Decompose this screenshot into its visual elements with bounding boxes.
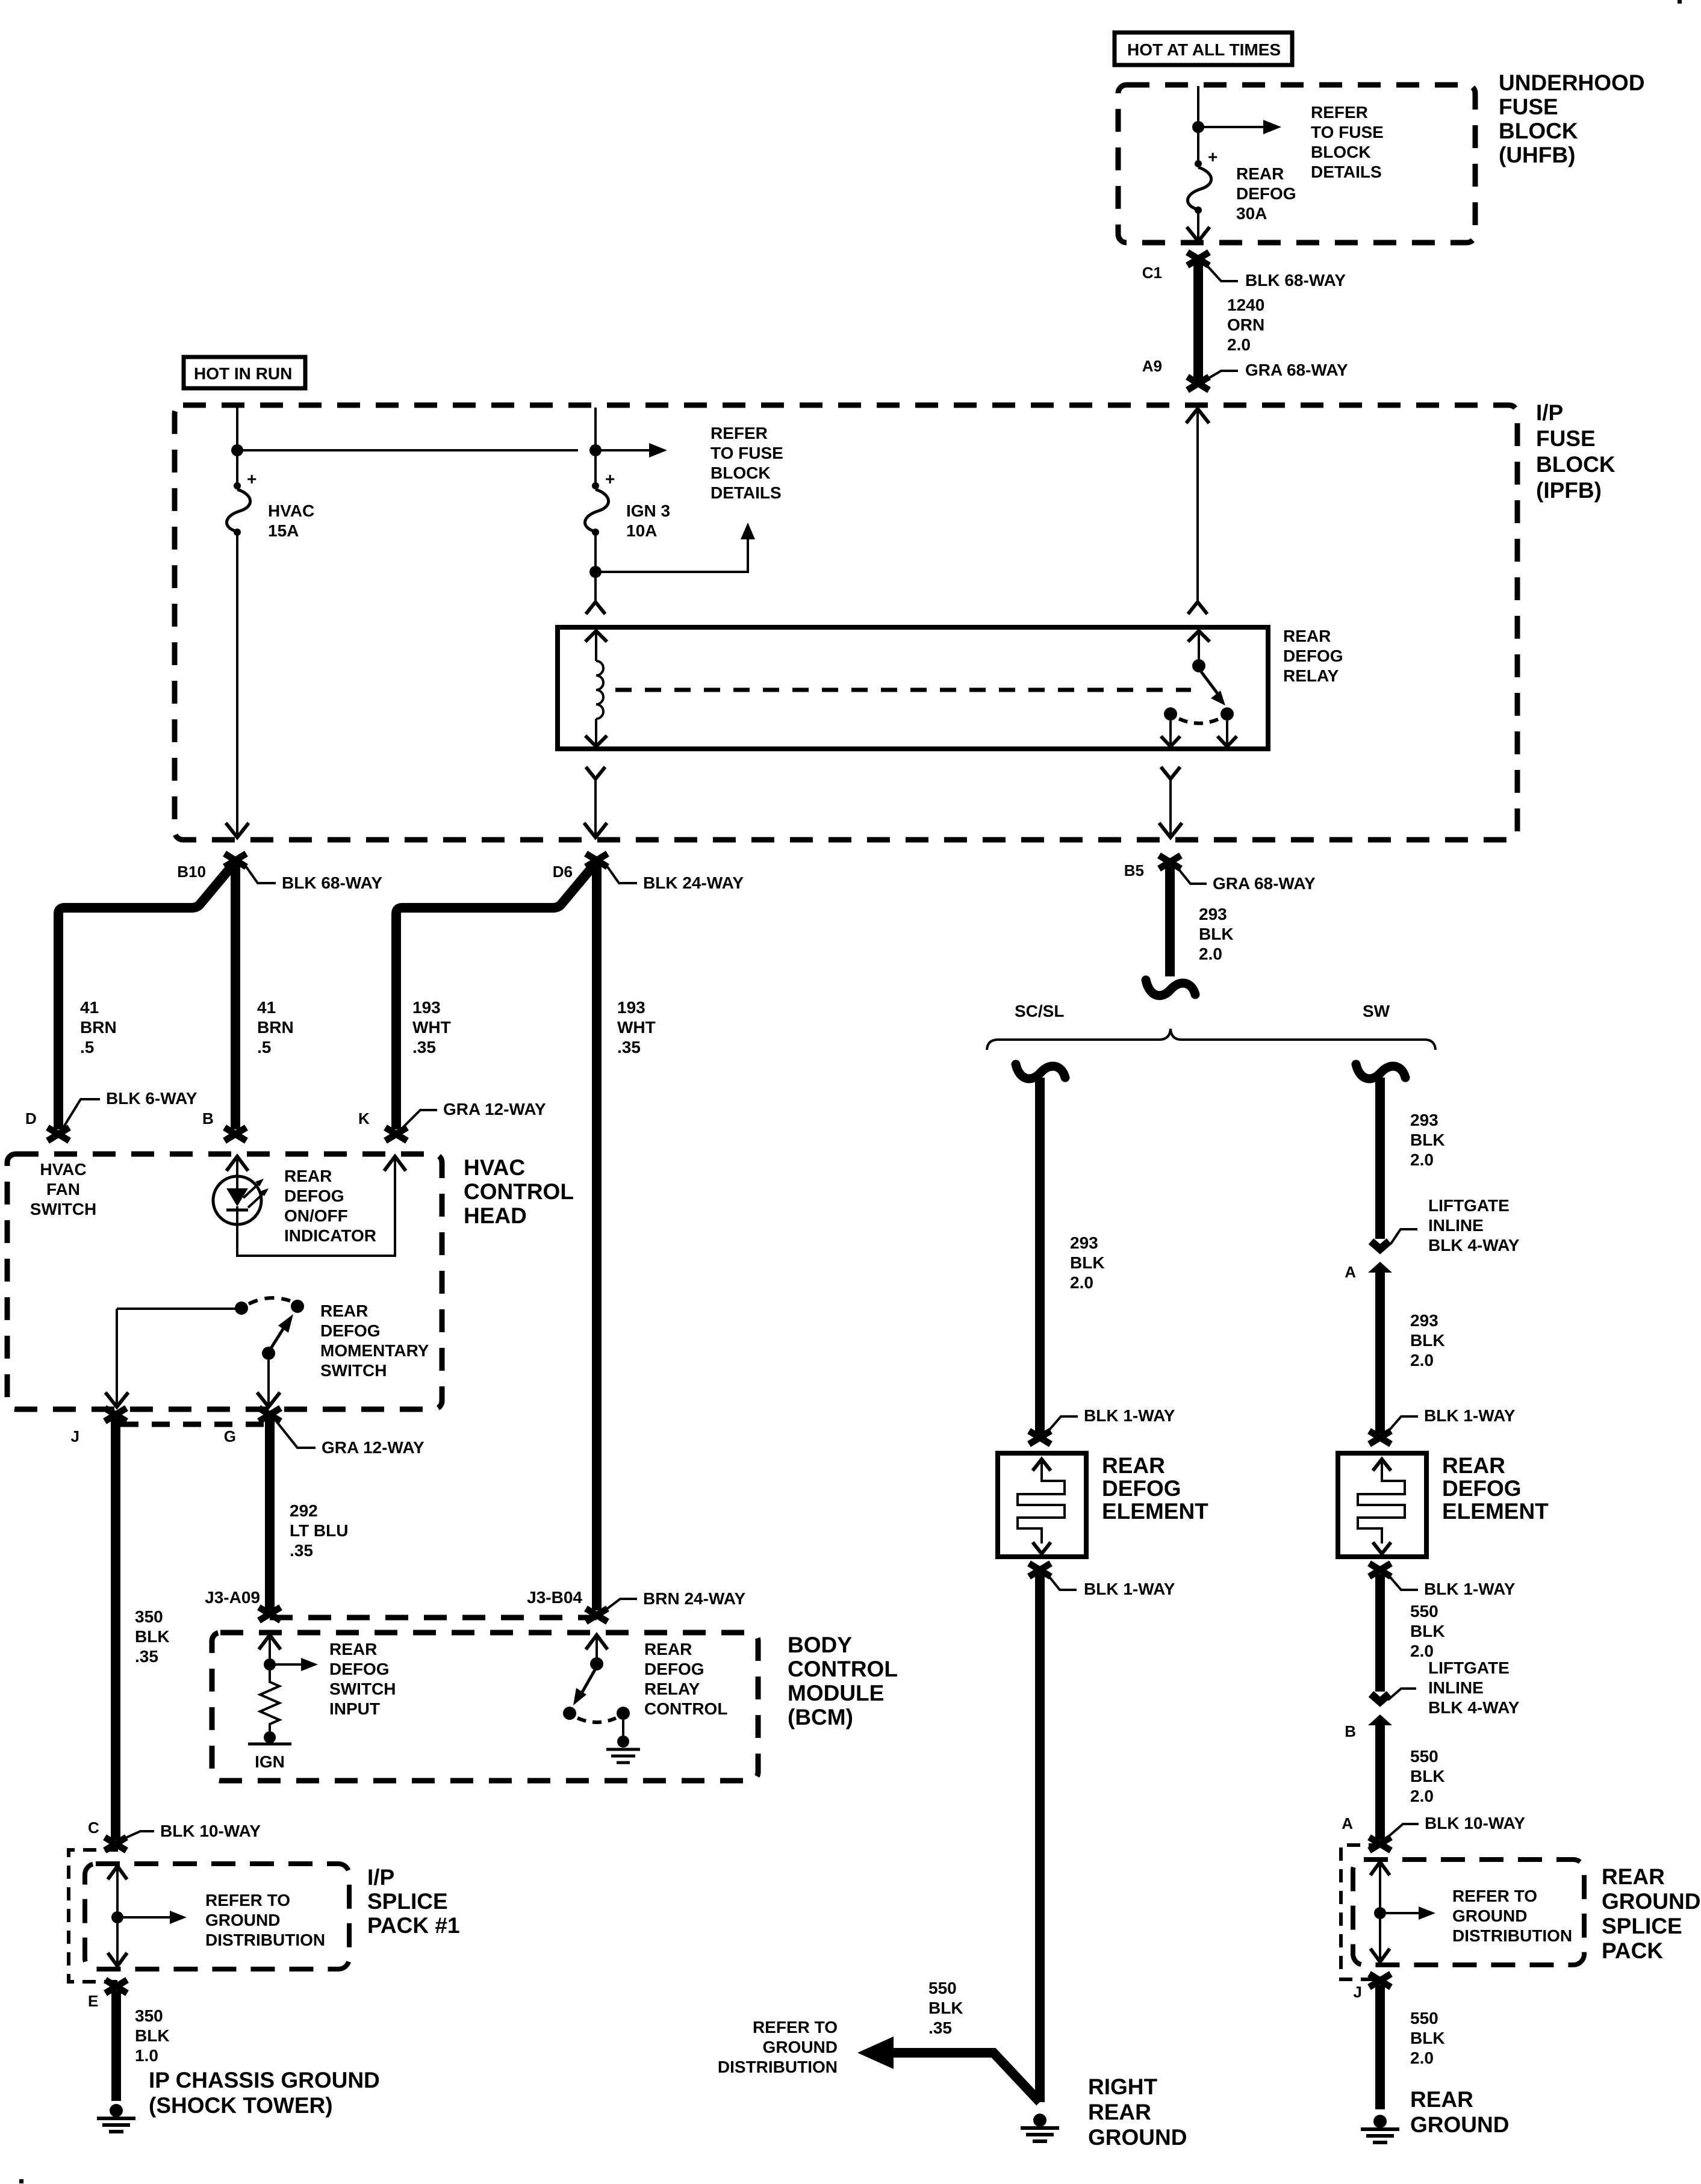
svg-text:HEAD: HEAD xyxy=(464,1203,527,1228)
svg-text:INPUT: INPUT xyxy=(329,1699,380,1718)
svg-text:B5: B5 xyxy=(1124,861,1144,879)
svg-text:ON/OFF: ON/OFF xyxy=(284,1206,348,1225)
svg-text:B: B xyxy=(1345,1722,1356,1740)
svg-text:BLK: BLK xyxy=(1410,1622,1445,1640)
svg-text:LIFTGATE: LIFTGATE xyxy=(1428,1196,1510,1215)
svg-text:RELAY: RELAY xyxy=(644,1680,700,1698)
svg-text:J: J xyxy=(71,1427,79,1445)
svg-text:BLK: BLK xyxy=(1410,1331,1445,1350)
svg-text:CONTROL: CONTROL xyxy=(644,1699,727,1718)
svg-text:BLK: BLK xyxy=(135,2026,170,2045)
svg-text:HOT IN RUN: HOT IN RUN xyxy=(194,364,292,383)
svg-text:BLK 1-WAY: BLK 1-WAY xyxy=(1424,1580,1516,1598)
svg-text:2.0: 2.0 xyxy=(1410,1787,1434,1805)
svg-text:GRA 12-WAY: GRA 12-WAY xyxy=(322,1438,424,1457)
svg-text:IP CHASSIS GROUND: IP CHASSIS GROUND xyxy=(149,2068,380,2092)
svg-text:C1: C1 xyxy=(1142,264,1162,282)
svg-text:INDICATOR: INDICATOR xyxy=(284,1226,376,1245)
svg-text:BLK 1-WAY: BLK 1-WAY xyxy=(1084,1580,1175,1598)
svg-text:BLK 10-WAY: BLK 10-WAY xyxy=(1425,1814,1525,1832)
svg-text:GROUND: GROUND xyxy=(1410,2112,1509,2137)
svg-text:J3-A09: J3-A09 xyxy=(205,1588,260,1607)
svg-text:BLK 24-WAY: BLK 24-WAY xyxy=(643,873,744,892)
svg-text:TO FUSE: TO FUSE xyxy=(711,444,783,462)
svg-text:BLK 68-WAY: BLK 68-WAY xyxy=(282,873,382,892)
svg-text:DEFOG: DEFOG xyxy=(1442,1476,1522,1501)
svg-text:550: 550 xyxy=(1410,1602,1438,1621)
svg-text:193: 193 xyxy=(412,998,441,1017)
svg-text:15A: 15A xyxy=(268,521,299,540)
svg-text:MOMENTARY: MOMENTARY xyxy=(320,1341,429,1360)
svg-text:TO FUSE: TO FUSE xyxy=(1311,123,1384,141)
svg-text:RELAY: RELAY xyxy=(1283,666,1339,685)
svg-text:(IPFB): (IPFB) xyxy=(1536,478,1602,503)
svg-text:GROUND: GROUND xyxy=(1602,1889,1700,1914)
svg-text:HVAC: HVAC xyxy=(40,1160,86,1179)
svg-text:350: 350 xyxy=(135,1607,163,1626)
svg-text:BLK: BLK xyxy=(928,1999,963,2017)
svg-text:REFER TO: REFER TO xyxy=(1452,1887,1537,1905)
svg-text:1240: 1240 xyxy=(1227,296,1264,314)
svg-text:BLOCK: BLOCK xyxy=(711,464,771,482)
svg-text:BRN: BRN xyxy=(257,1018,294,1037)
svg-text:WHT: WHT xyxy=(412,1018,451,1037)
svg-text:CONTROL: CONTROL xyxy=(788,1657,898,1681)
svg-text:A: A xyxy=(1342,1814,1353,1832)
svg-text:SWITCH: SWITCH xyxy=(30,1200,96,1218)
svg-text:.5: .5 xyxy=(80,1038,94,1056)
svg-text:BLK 4-WAY: BLK 4-WAY xyxy=(1428,1236,1520,1255)
svg-text:SPLICE: SPLICE xyxy=(367,1889,448,1914)
svg-text:REAR: REAR xyxy=(1442,1453,1505,1478)
svg-text:REFER: REFER xyxy=(711,424,768,442)
svg-text:BLK 1-WAY: BLK 1-WAY xyxy=(1084,1406,1175,1425)
svg-text:SW: SW xyxy=(1363,1002,1390,1020)
svg-text:INLINE: INLINE xyxy=(1428,1678,1484,1697)
svg-text:HVAC: HVAC xyxy=(268,501,314,520)
svg-text:GROUND: GROUND xyxy=(1088,2125,1187,2150)
svg-text:GROUND: GROUND xyxy=(1452,1906,1527,1925)
svg-text:BLOCK: BLOCK xyxy=(1536,452,1615,477)
svg-text:MODULE: MODULE xyxy=(788,1681,884,1705)
svg-text:2.0: 2.0 xyxy=(1410,1642,1434,1660)
svg-text:E: E xyxy=(88,1992,98,2010)
svg-text:ORN: ORN xyxy=(1227,315,1264,334)
svg-text:SC/SL: SC/SL xyxy=(1015,1002,1064,1020)
svg-text:FUSE: FUSE xyxy=(1499,95,1558,119)
svg-text:+: + xyxy=(605,470,615,488)
svg-text:41: 41 xyxy=(257,998,276,1017)
svg-text:(BCM): (BCM) xyxy=(788,1705,853,1730)
svg-text:BLK 1-WAY: BLK 1-WAY xyxy=(1424,1406,1516,1425)
svg-text:2.0: 2.0 xyxy=(1410,1150,1434,1169)
svg-text:REAR: REAR xyxy=(1236,164,1284,183)
svg-text:BODY: BODY xyxy=(788,1633,852,1657)
svg-text:.35: .35 xyxy=(617,1038,641,1056)
svg-text:DISTRIBUTION: DISTRIBUTION xyxy=(718,2058,838,2076)
svg-text:350: 350 xyxy=(135,2006,163,2025)
svg-text:2.0: 2.0 xyxy=(1227,335,1251,354)
svg-text:REAR: REAR xyxy=(1602,1864,1665,1889)
svg-text:2.0: 2.0 xyxy=(1410,2049,1434,2067)
svg-text:DEFOG: DEFOG xyxy=(284,1187,344,1205)
svg-text:DEFOG: DEFOG xyxy=(1283,647,1343,665)
svg-text:REAR: REAR xyxy=(284,1167,332,1185)
svg-text:FUSE: FUSE xyxy=(1536,426,1596,451)
svg-text:I/P: I/P xyxy=(1536,400,1563,425)
svg-text:.35: .35 xyxy=(928,2018,952,2037)
svg-text:+: + xyxy=(1208,147,1217,166)
svg-text:REFER TO: REFER TO xyxy=(753,2018,838,2037)
svg-text:.5: .5 xyxy=(257,1038,271,1056)
svg-text:RIGHT: RIGHT xyxy=(1088,2074,1158,2099)
svg-text:DEFOG: DEFOG xyxy=(644,1660,704,1678)
svg-text:+: + xyxy=(247,470,257,488)
svg-text:30A: 30A xyxy=(1236,204,1267,223)
svg-text:REAR: REAR xyxy=(320,1301,368,1320)
svg-text:B: B xyxy=(202,1109,214,1128)
svg-text:D: D xyxy=(25,1109,37,1128)
svg-text:BRN: BRN xyxy=(80,1018,117,1037)
svg-text:D6: D6 xyxy=(553,863,573,881)
svg-text:IGN 3: IGN 3 xyxy=(626,501,670,520)
svg-text:REAR: REAR xyxy=(1283,627,1331,645)
svg-text:UNDERHOOD: UNDERHOOD xyxy=(1499,70,1645,95)
svg-text:193: 193 xyxy=(617,998,645,1017)
svg-text:CONTROL: CONTROL xyxy=(464,1179,574,1204)
svg-text:BLK: BLK xyxy=(1410,1767,1445,1785)
svg-text:J: J xyxy=(1354,1983,1362,2001)
svg-text:DETAILS: DETAILS xyxy=(1311,163,1382,181)
svg-text:BLK 68-WAY: BLK 68-WAY xyxy=(1245,271,1346,290)
svg-text:550: 550 xyxy=(928,1979,957,1997)
svg-text:G: G xyxy=(224,1427,236,1445)
svg-text:DEFOG: DEFOG xyxy=(329,1660,390,1678)
svg-text:GRA 68-WAY: GRA 68-WAY xyxy=(1245,361,1348,379)
svg-text:B10: B10 xyxy=(177,863,206,881)
svg-text:550: 550 xyxy=(1410,2009,1438,2027)
svg-text:BLK: BLK xyxy=(1410,2029,1445,2047)
svg-text:J3-B04: J3-B04 xyxy=(527,1588,582,1607)
svg-text:PACK: PACK xyxy=(1602,1938,1663,1963)
svg-text:C: C xyxy=(88,1819,99,1837)
svg-text:DEFOG: DEFOG xyxy=(1236,184,1296,203)
svg-text:BLK: BLK xyxy=(135,1627,170,1646)
svg-text:FAN: FAN xyxy=(46,1180,80,1199)
svg-text:WHT: WHT xyxy=(617,1018,656,1037)
svg-text:(UHFB): (UHFB) xyxy=(1499,143,1575,167)
svg-text:2.0: 2.0 xyxy=(1070,1273,1093,1292)
svg-text:SWITCH: SWITCH xyxy=(320,1361,387,1380)
svg-text:HOT AT ALL TIMES: HOT AT ALL TIMES xyxy=(1127,40,1281,59)
svg-text:BLK: BLK xyxy=(1199,925,1234,943)
svg-text:GROUND: GROUND xyxy=(763,2038,838,2056)
svg-text:SPLICE: SPLICE xyxy=(1602,1914,1682,1938)
svg-text:BLK 4-WAY: BLK 4-WAY xyxy=(1428,1698,1520,1717)
svg-text:REFER: REFER xyxy=(1311,103,1368,122)
svg-text:PACK #1: PACK #1 xyxy=(367,1913,460,1938)
svg-text:SWITCH: SWITCH xyxy=(329,1680,396,1698)
svg-text:DISTRIBUTION: DISTRIBUTION xyxy=(1452,1926,1572,1945)
svg-text:GRA 12-WAY: GRA 12-WAY xyxy=(443,1100,546,1118)
svg-text:293: 293 xyxy=(1410,1111,1438,1129)
svg-text:IGN: IGN xyxy=(255,1752,285,1771)
svg-text:BLOCK: BLOCK xyxy=(1311,143,1371,161)
svg-text:REAR: REAR xyxy=(1410,2087,1473,2112)
svg-text:41: 41 xyxy=(80,998,99,1017)
svg-text:DISTRIBUTION: DISTRIBUTION xyxy=(205,1931,325,1949)
svg-text:DEFOG: DEFOG xyxy=(1102,1476,1181,1501)
svg-text:ELEMENT: ELEMENT xyxy=(1442,1499,1549,1524)
svg-text:REAR: REAR xyxy=(644,1640,692,1658)
svg-text:2.0: 2.0 xyxy=(1199,945,1222,963)
svg-text:LT BLU: LT BLU xyxy=(290,1521,348,1540)
svg-text:REAR: REAR xyxy=(329,1640,377,1658)
svg-text:A: A xyxy=(1345,1263,1356,1281)
svg-text:BLK 6-WAY: BLK 6-WAY xyxy=(106,1089,197,1108)
svg-text:293: 293 xyxy=(1410,1311,1438,1330)
svg-text:BRN 24-WAY: BRN 24-WAY xyxy=(643,1589,745,1608)
svg-text:INLINE: INLINE xyxy=(1428,1216,1484,1235)
svg-text:DEFOG: DEFOG xyxy=(320,1321,381,1340)
svg-text:1.0: 1.0 xyxy=(135,2046,158,2065)
svg-text:293: 293 xyxy=(1199,905,1227,923)
svg-text:DETAILS: DETAILS xyxy=(711,483,782,502)
svg-text:.35: .35 xyxy=(135,1647,158,1666)
svg-text:2.0: 2.0 xyxy=(1410,1351,1434,1370)
svg-text:BLK 10-WAY: BLK 10-WAY xyxy=(160,1822,261,1840)
svg-text:BLK: BLK xyxy=(1410,1131,1445,1149)
svg-text:550: 550 xyxy=(1410,1747,1438,1766)
svg-text:ELEMENT: ELEMENT xyxy=(1102,1499,1208,1524)
svg-text:K: K xyxy=(358,1109,370,1128)
svg-text:293: 293 xyxy=(1070,1233,1098,1252)
svg-text:GROUND: GROUND xyxy=(205,1911,280,1929)
svg-text:REAR: REAR xyxy=(1088,2100,1151,2124)
svg-text:LIFTGATE: LIFTGATE xyxy=(1428,1658,1510,1677)
svg-text:.35: .35 xyxy=(412,1038,436,1056)
svg-text:A9: A9 xyxy=(1142,357,1162,375)
svg-text:292: 292 xyxy=(290,1501,318,1520)
svg-text:REFER TO: REFER TO xyxy=(205,1891,290,1909)
svg-text:BLK: BLK xyxy=(1070,1253,1105,1272)
svg-text:.35: .35 xyxy=(290,1541,313,1560)
svg-text:I/P: I/P xyxy=(367,1865,394,1890)
svg-text:REAR: REAR xyxy=(1102,1453,1165,1478)
svg-text:HVAC: HVAC xyxy=(464,1155,525,1180)
svg-text:10A: 10A xyxy=(626,521,657,540)
svg-text:(SHOCK TOWER): (SHOCK TOWER) xyxy=(149,2093,333,2118)
svg-text:GRA 68-WAY: GRA 68-WAY xyxy=(1213,874,1316,893)
svg-text:BLOCK: BLOCK xyxy=(1499,119,1578,143)
